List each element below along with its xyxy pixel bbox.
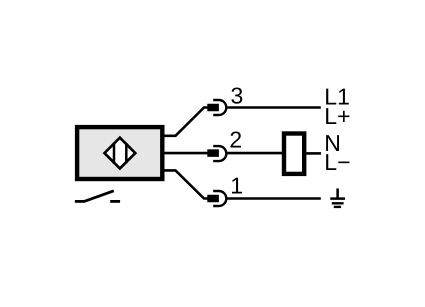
wire pin3 from sensor (163, 108, 209, 136)
switch contact (75, 191, 120, 202)
connector pin 2 (207, 146, 226, 161)
svg-text:3: 3 (231, 82, 244, 108)
svg-text:1: 1 (230, 173, 243, 199)
load (284, 134, 304, 174)
net label L+ (324, 103, 350, 129)
svg-text:L−: L− (324, 149, 350, 175)
ground (330, 188, 345, 207)
proximity sensor symbol (diamond) (105, 138, 136, 169)
connector pin 1 (207, 191, 226, 206)
pin label 1 (230, 173, 243, 199)
wire load to N/L- (306, 152, 321, 155)
wire pin2 from sensor (163, 152, 209, 155)
svg-text:2: 2 (229, 126, 242, 152)
pin label 2 (229, 126, 242, 152)
wire pin1 from sensor (163, 170, 209, 198)
wire pin3 to L1/L+ (227, 106, 320, 109)
net label L- (324, 149, 350, 175)
svg-text:L+: L+ (324, 103, 350, 129)
net label L1 (324, 84, 350, 110)
wire pin2 to load (227, 152, 282, 155)
wire pin1 to ground (227, 197, 320, 200)
connector pin 3 (207, 100, 226, 115)
net label N (324, 130, 341, 156)
sensor body (77, 127, 162, 179)
pin label 3 (231, 82, 244, 108)
